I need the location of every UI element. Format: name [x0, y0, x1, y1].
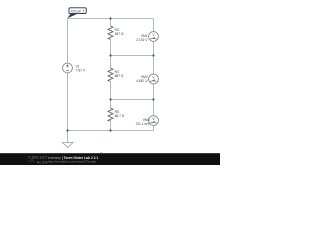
wire top rail [68, 18, 154, 20]
wire left vertical lower [67, 73, 69, 131]
junction bottom left [66, 129, 68, 131]
label V1 value [76, 64, 86, 72]
label VM1 value [136, 34, 148, 42]
footer bar [0, 153, 220, 165]
svg-text:4.687 V: 4.687 V [136, 79, 148, 83]
voltage source V1 [63, 63, 73, 73]
svg-text:7.87 V: 7.87 V [76, 69, 86, 73]
label R4 value [115, 70, 124, 78]
resistor R4 [108, 68, 113, 82]
svg-text:66.7 Ω: 66.7 Ω [115, 114, 125, 118]
label VM3 value [135, 118, 150, 126]
label VM2 value [136, 75, 148, 83]
label R5 value [115, 110, 125, 118]
svg-text:687 Ω: 687 Ω [115, 74, 124, 78]
junction bottom middle [109, 129, 111, 131]
svg-text:2.192 V: 2.192 V [136, 38, 148, 42]
voltmeter VM2 [149, 74, 159, 84]
junction row1 left [109, 54, 111, 56]
wire row1 [111, 55, 154, 57]
resistor R5 [108, 108, 113, 121]
junction row2 left [109, 98, 111, 100]
wire middle column segments [110, 19, 112, 131]
resistor R3 [108, 26, 113, 40]
svg-text:■LAB: ■LAB [37, 160, 48, 164]
svg-text:721.1 mV: 721.1 mV [135, 122, 150, 126]
voltmeter VM3 [149, 116, 159, 126]
wire left vertical upper [67, 19, 69, 64]
node flag Circuit_2 [67, 8, 86, 18]
voltmeter VM1 [149, 32, 159, 42]
footer caret [100, 152, 104, 154]
wire row2 [111, 99, 154, 101]
wire right column segments [153, 19, 155, 131]
wire ground stub [67, 131, 69, 143]
junction top middle [109, 17, 111, 19]
svg-text:Circuit_2: Circuit_2 [71, 9, 85, 13]
junction row1 right [152, 54, 154, 56]
ground [62, 143, 73, 148]
svg-text:287 Ω: 287 Ω [115, 32, 124, 36]
svg-text:http://circuitlab.com/c/dwp337: http://circuitlab.com/c/dwp337ywfap [48, 160, 96, 164]
wire bottom rail [68, 130, 154, 132]
label R3 value [115, 28, 124, 36]
footer logo CIRCUIT LAB [28, 155, 48, 164]
junction row2 right [152, 98, 154, 100]
